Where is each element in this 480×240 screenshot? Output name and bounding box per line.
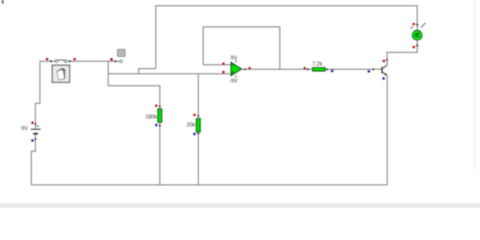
svg-text:180k: 180k [145,115,157,121]
svg-text:-9V: -9V [229,78,238,84]
wire op-amp - input [203,64,231,66]
svg-text:7.2k: 7.2k [312,62,322,68]
transistor Q1 (NPN) [368,59,388,80]
battery B1 9V [21,122,40,142]
wire feedback loop [203,27,280,69]
op-amp U1 [222,56,250,85]
wire bottom rail [31,184,387,186]
resistor R3 7.2k [304,62,334,73]
wire emitter to rail [386,75,388,185]
wire op-amp + input [108,73,231,75]
LED D1 [410,23,425,48]
bottom gray strip [0,204,480,208]
wire 180k bottom to rail [159,122,161,185]
wire battery- down to rail [31,134,35,185]
wire switch right to push switch [67,60,120,62]
push switch SW2 button icon [118,49,125,56]
resistor R2 20k [187,114,201,135]
svg-text:9V: 9V [231,56,238,62]
switch SW1 rocker housing [52,65,69,82]
svg-text:9V: 9V [21,126,28,132]
wire battery+ up to switch [35,61,55,129]
switch SW1 (toggle, closed) [46,58,76,62]
wire top loop [156,6,417,69]
svg-text:20k: 20k [187,123,196,129]
wire 20k bottom to rail [197,132,199,185]
push switch SW2 (open) [110,58,122,62]
top-left toolbar speck [2,0,4,4]
wire op-amp output to transistor base [241,68,381,70]
wire LED bottom to collector [387,40,417,65]
wire junction vertical [107,61,109,86]
wire top loop jog [139,69,156,74]
wire 20k branch [197,74,199,119]
wire to 180k top [108,86,160,109]
resistor R1 180k [145,105,161,127]
canvas right edge line [474,0,475,170]
svg-text:+: + [36,124,39,130]
